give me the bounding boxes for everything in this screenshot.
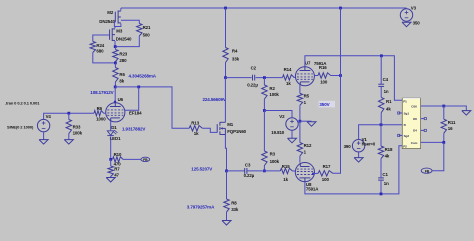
svg-text:100k: 100k: [269, 92, 279, 97]
svg-text:390: 390: [344, 144, 352, 149]
node cathode ground: [299, 120, 302, 123]
svg-text:FB: FB: [143, 158, 148, 162]
annotation voltage 108V: [90, 90, 113, 95]
svg-text:R5: R5: [304, 94, 310, 99]
resistor R33: [66, 113, 83, 135]
annotation voltage 350V: [319, 101, 335, 108]
resistor R6 8k: [113, 63, 126, 87]
ground speaker: [462, 111, 471, 116]
svg-text:R12: R12: [304, 143, 312, 148]
node cathode feedback: [109, 158, 112, 161]
svg-text:U7: U7: [305, 60, 311, 65]
svg-text:1000: 1000: [96, 117, 106, 122]
transistor M1 FQP1N60: [217, 122, 246, 135]
wire R2 to bias node: [263, 99, 265, 111]
svg-text:C3: C3: [245, 162, 251, 167]
wire to FB flag: [123, 158, 141, 160]
svg-text:100k: 100k: [73, 130, 83, 135]
svg-text:R6: R6: [119, 72, 125, 77]
svg-text:Com: Com: [411, 141, 418, 145]
node C3/R3/R15: [263, 170, 266, 173]
node input / R33: [67, 112, 70, 115]
resistor R21: [115, 20, 151, 46]
voltage source V4: [7, 114, 51, 132]
ground cathode: [300, 121, 316, 126]
annotation current 4.3mA: [129, 73, 157, 78]
wire to V2: [264, 111, 292, 118]
svg-text:33k: 33k: [232, 57, 240, 62]
ground R7: [106, 176, 115, 182]
pin Sg2 stub: [398, 134, 403, 136]
svg-text:100: 100: [322, 177, 330, 182]
svg-text:350: 350: [413, 21, 421, 26]
resistor R16 screen: [315, 65, 341, 85]
wire R3 to node: [263, 166, 265, 171]
node CCS cascode: [114, 45, 117, 48]
node screen rail / R16: [339, 74, 342, 77]
svg-text:R21: R21: [143, 25, 151, 30]
node plate / C4: [380, 54, 383, 57]
svg-text:R8: R8: [231, 201, 237, 206]
svg-text:V3: V3: [411, 6, 417, 11]
wire screen tap: [125, 87, 139, 110]
svg-text:D1: D1: [111, 125, 117, 130]
svg-text:4k: 4k: [386, 107, 391, 112]
svg-text:R16: R16: [319, 65, 327, 70]
wire anode to follower: [115, 87, 189, 128]
resistor R3: [262, 111, 280, 166]
resistor R11 load: [441, 106, 456, 142]
node R4 / C2 / M1 drain: [224, 76, 227, 79]
wire M1 drain: [224, 78, 226, 123]
svg-text:SINE(0 2 1000): SINE(0 2 1000): [7, 124, 34, 129]
svg-text:1k: 1k: [194, 131, 199, 136]
tube U7 7591A: [295, 60, 327, 86]
wire feedback tap: [432, 142, 444, 170]
svg-text:0.22µ: 0.22µ: [247, 82, 258, 87]
wire LED to node: [110, 136, 112, 159]
wire O16: [421, 105, 444, 107]
wire M2 source to M3 drain: [115, 24, 121, 29]
svg-text:Rser=0: Rser=0: [362, 142, 376, 147]
svg-text:0.22µ: 0.22µ: [244, 173, 255, 178]
svg-text:100: 100: [320, 80, 328, 85]
resistor R4: [223, 8, 240, 78]
wire R12 to lower cathode: [299, 156, 301, 163]
svg-text:1k: 1k: [286, 81, 291, 86]
svg-text:500: 500: [143, 33, 151, 38]
svg-text:4.3045268mA: 4.3045268mA: [129, 73, 157, 78]
svg-text:R10: R10: [114, 152, 122, 157]
svg-text:R7: R7: [114, 166, 120, 171]
pin Sg1 stub: [398, 112, 403, 114]
svg-text:R6: R6: [97, 106, 103, 111]
resistor R7: [108, 159, 120, 177]
transformer output: [402, 98, 420, 148]
voltage source V2: [271, 114, 298, 135]
svg-text:108.17912V: 108.17912V: [90, 90, 113, 95]
wire top supply rail: [121, 7, 407, 9]
node Com / feedback: [442, 141, 445, 144]
node C2/R2/R14: [263, 76, 266, 79]
resistor R24: [90, 35, 115, 63]
resistor R13 gate: [189, 120, 217, 136]
svg-text:DN2540: DN2540: [99, 19, 115, 24]
net flag FB right: [421, 168, 432, 174]
resistor R8: [224, 171, 239, 212]
wire Com: [421, 141, 444, 143]
svg-text:3.7979257mA: 3.7979257mA: [187, 204, 215, 209]
node bias splitter: [263, 109, 266, 112]
resistor R1: [379, 87, 393, 125]
resistor R14: [283, 67, 296, 86]
svg-text:R23: R23: [119, 51, 127, 56]
capacitor C3: [244, 162, 255, 178]
svg-text:1k: 1k: [283, 177, 288, 182]
svg-text:47: 47: [114, 172, 119, 177]
svg-text:350V: 350V: [319, 102, 329, 107]
node screen lower: [312, 173, 314, 175]
svg-text:R18: R18: [385, 147, 393, 152]
capacitor C2: [247, 65, 258, 87]
wire O16 to ground: [444, 106, 467, 111]
wire grid EF184: [104, 112, 106, 114]
svg-text:R33: R33: [73, 125, 81, 130]
voltage source V1: [344, 137, 376, 152]
svg-text:125.5207V: 125.5207V: [191, 166, 212, 171]
transistor M2 DN2540: [99, 8, 121, 24]
ground V2: [288, 130, 297, 143]
wire M1 source: [225, 135, 226, 171]
svg-text:M1: M1: [227, 122, 234, 127]
svg-text:DN2540: DN2540: [116, 37, 132, 42]
svg-text:Sg1: Sg1: [404, 111, 410, 115]
svg-text:M3: M3: [116, 29, 123, 34]
wire M3 source to node: [114, 41, 116, 47]
wire M2 gate to M3 drain: [113, 22, 116, 27]
wire R15 to grid: [293, 170, 296, 172]
annotation voltage 1.93V: [122, 126, 145, 131]
node anode / screen tap: [137, 86, 140, 89]
svg-text:.tran 0 0.2 0.1 0.001: .tran 0 0.2 0.1 0.001: [5, 100, 40, 105]
annotation voltage 125V: [191, 166, 212, 171]
svg-text:16: 16: [448, 126, 453, 131]
resistor R18: [378, 125, 393, 159]
svg-text:R1: R1: [386, 99, 392, 104]
node follower output: [225, 170, 228, 173]
svg-text:FB: FB: [425, 170, 430, 174]
resistor R6 grid 1000: [94, 106, 106, 121]
capacitor C4: [378, 56, 389, 94]
transistor M3 DN2540: [110, 28, 132, 41]
svg-text:R4: R4: [232, 49, 238, 54]
ground V3: [402, 21, 411, 27]
svg-text:1n: 1n: [384, 89, 389, 94]
wire C3 to node: [247, 170, 280, 172]
svg-text:R11: R11: [448, 120, 456, 125]
voltage source V3: [400, 6, 420, 26]
svg-text:100k: 100k: [270, 159, 280, 164]
svg-text:O16: O16: [411, 105, 417, 109]
svg-text:EF184: EF184: [129, 110, 142, 115]
wire to C3: [227, 170, 245, 172]
wire B+ to transformer: [359, 125, 403, 140]
svg-text:C4: C4: [383, 77, 389, 82]
svg-text:R17: R17: [323, 164, 331, 169]
diode D1 LED1: [107, 125, 121, 141]
resistor R23: [113, 47, 128, 63]
svg-text:7591A: 7591A: [306, 187, 319, 192]
svg-text:680: 680: [96, 48, 104, 53]
svg-text:19.810: 19.810: [271, 130, 284, 135]
svg-text:R3: R3: [270, 151, 276, 156]
svg-text:U6: U6: [118, 97, 124, 102]
capacitor C1: [378, 159, 389, 194]
svg-text:P1: P1: [403, 99, 407, 103]
pin O8 stub: [421, 118, 427, 120]
svg-text:Sg2: Sg2: [404, 134, 410, 138]
svg-text:V2: V2: [279, 114, 285, 119]
ground R33: [64, 134, 73, 145]
svg-text:O4: O4: [413, 129, 417, 133]
svg-text:P2: P2: [403, 144, 407, 148]
svg-text:1n: 1n: [384, 181, 389, 186]
svg-text:R14: R14: [284, 67, 292, 72]
wire cathode: [110, 121, 112, 130]
node B / zobel: [380, 123, 383, 126]
resistor R5 cathode: [297, 85, 309, 105]
svg-text:280: 280: [119, 58, 127, 63]
wire to C2: [226, 77, 252, 79]
pin O4 stub: [421, 129, 427, 131]
wire C2 to node: [256, 77, 283, 79]
svg-text:LED1: LED1: [110, 136, 121, 141]
annotation current 3.79mA: [187, 204, 215, 209]
resistor R2: [262, 78, 280, 99]
resistor R12 cathode: [297, 121, 312, 156]
svg-text:FQP1N60: FQP1N60: [227, 129, 246, 134]
svg-text:33k: 33k: [231, 207, 239, 212]
resistor R17 screen: [313, 164, 333, 182]
svg-text:224.56609V: 224.56609V: [203, 97, 226, 102]
svg-text:4k: 4k: [385, 153, 390, 158]
directive .tran: [5, 100, 40, 105]
node junction top rail / R4: [224, 7, 227, 10]
wire plate lower: [305, 146, 402, 194]
svg-text:R13: R13: [191, 120, 199, 125]
node EF184 anode: [114, 86, 117, 89]
svg-text:R2: R2: [269, 86, 275, 91]
node O16: [442, 105, 445, 108]
svg-text:R24: R24: [96, 43, 104, 48]
resistor R15: [280, 164, 292, 182]
net flag FB left: [141, 157, 150, 162]
svg-text:8k: 8k: [119, 78, 124, 83]
annotation voltage 224V: [203, 97, 226, 102]
wire plate upper: [305, 56, 402, 100]
wire screen rail: [333, 8, 341, 173]
svg-text:1.9317882V: 1.9317882V: [122, 126, 145, 131]
ground V4: [39, 132, 48, 144]
svg-text:V4: V4: [46, 114, 52, 119]
node bottom / C1: [380, 193, 383, 196]
wire input: [44, 113, 94, 119]
svg-text:M2: M2: [107, 10, 114, 15]
tube U6 EF184: [106, 87, 142, 122]
svg-text:O8: O8: [413, 117, 417, 121]
ground V1: [354, 152, 363, 162]
node junction top rail / screen rail: [339, 7, 342, 10]
svg-text:C2: C2: [251, 65, 257, 70]
resistor R10: [113, 152, 124, 166]
ground R8: [222, 212, 231, 225]
tube U8 7591A: [295, 163, 319, 192]
node R23/R24/R6: [114, 62, 117, 65]
wire R5 to ground node: [299, 105, 301, 121]
svg-text:C1: C1: [382, 172, 388, 177]
